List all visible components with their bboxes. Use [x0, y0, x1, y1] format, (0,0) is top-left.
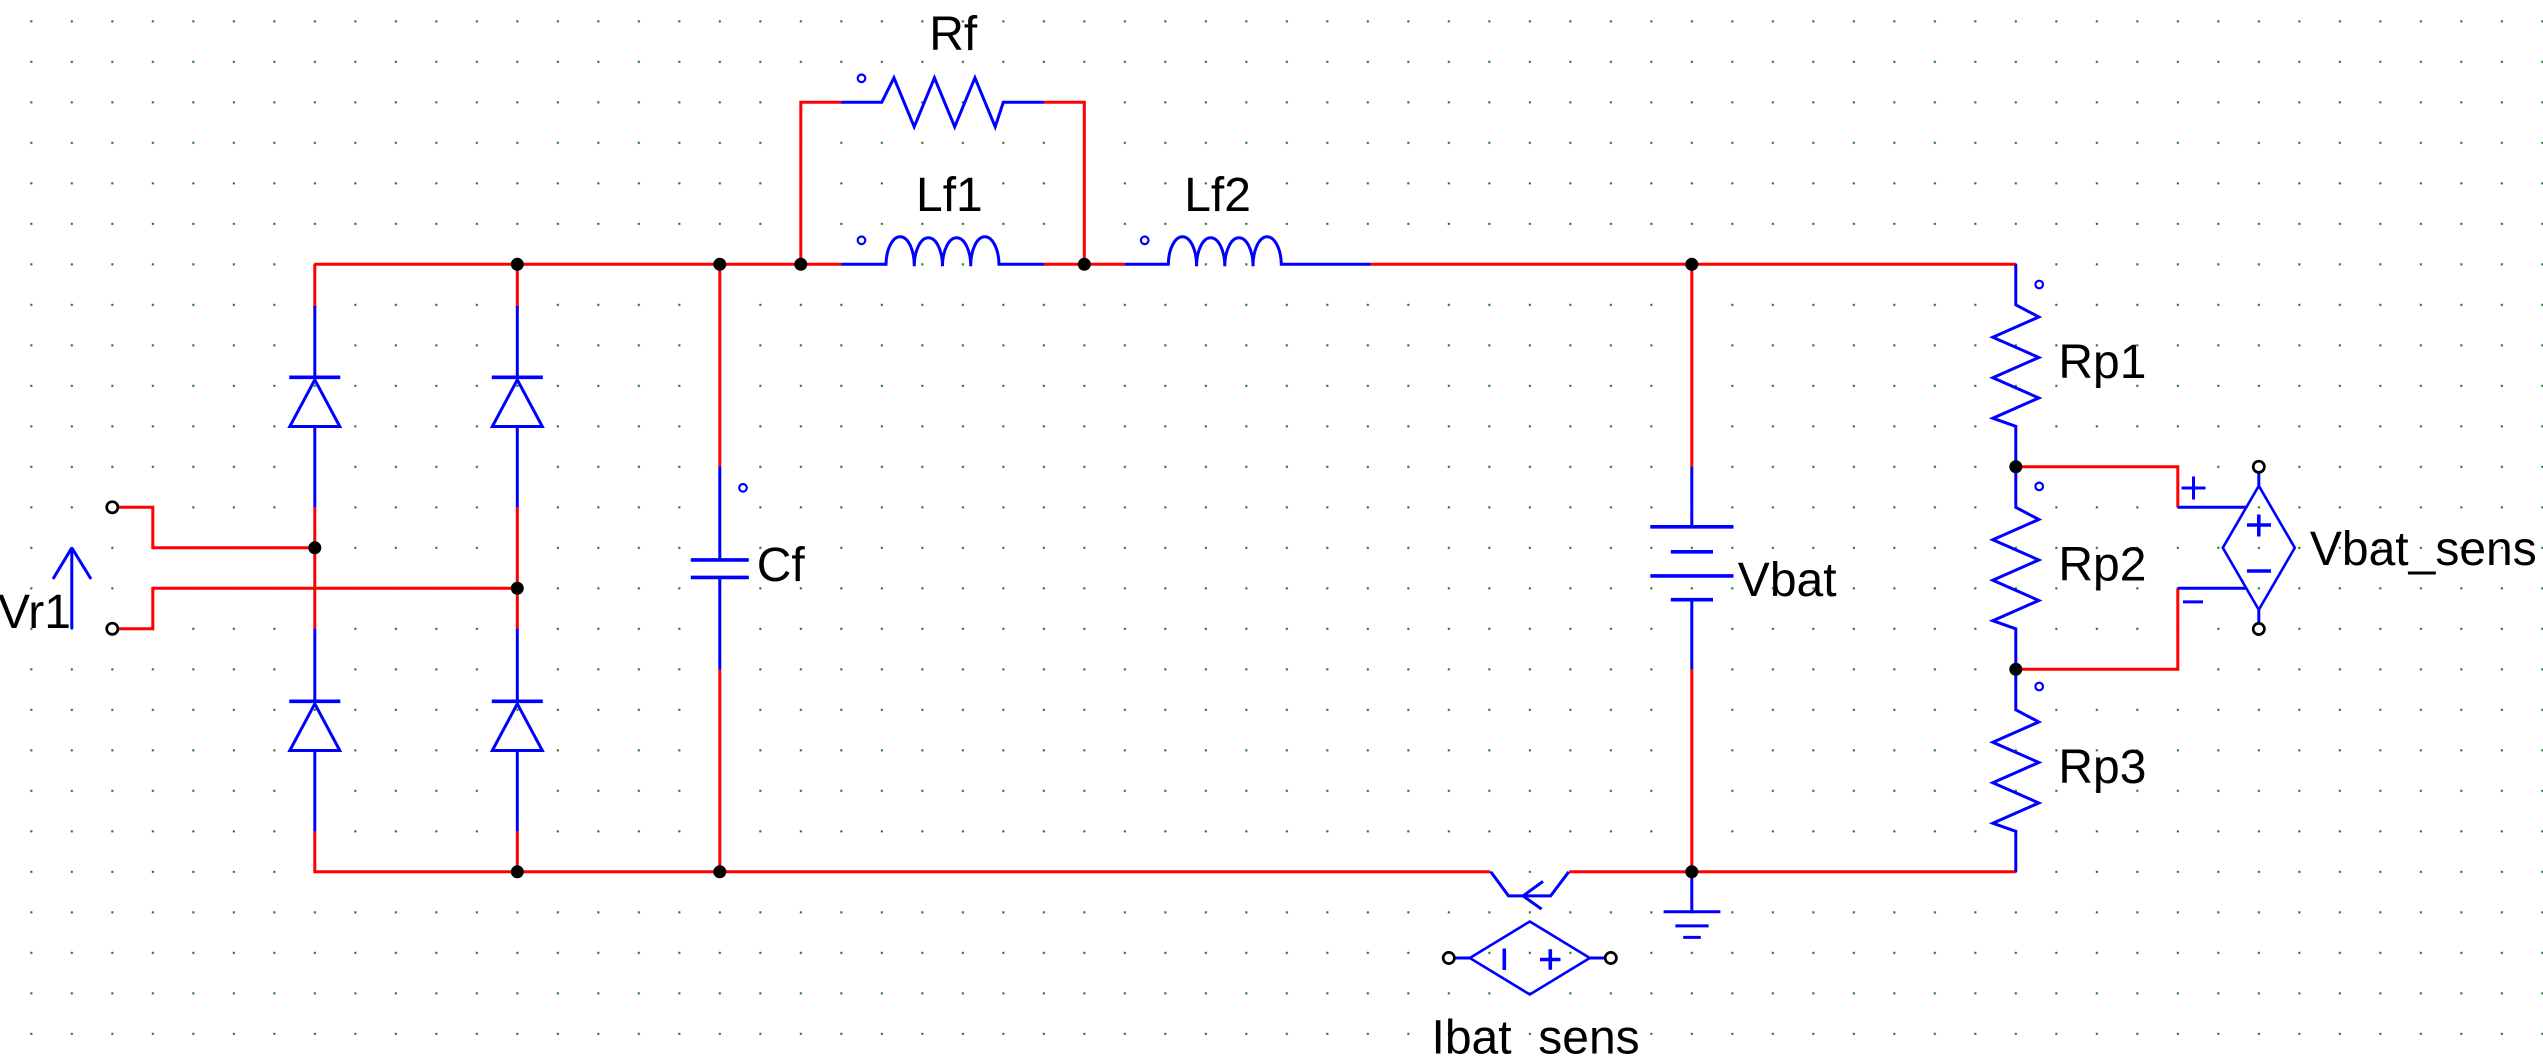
- wire Vr1 minus to bridge node B: [119, 588, 517, 629]
- svg-text:Lf2: Lf2: [1184, 169, 1251, 222]
- terminal Vr1 minus: [107, 623, 118, 634]
- junction top rail Vbat: [1685, 258, 1698, 271]
- terminal Ibat_sens right: [1605, 952, 1616, 963]
- junction node A (bridge left mid): [308, 541, 321, 554]
- Vbat_sens outer plus sign: [2182, 477, 2206, 500]
- junction top rail branch right: [1078, 258, 1091, 271]
- wire Vbat branch red: [1690, 264, 1693, 872]
- wire bottom rail: [315, 831, 2016, 872]
- diode D1 top-left: [289, 306, 340, 507]
- svg-text:Rp2: Rp2: [2058, 539, 2146, 592]
- svg-text:Rf: Rf: [929, 8, 978, 61]
- inductor Lf1: [841, 237, 1044, 267]
- svg-text:Rp1: Rp1: [2058, 336, 2146, 389]
- wire bridge right leg red segments: [516, 264, 519, 872]
- junction bottom rail right leg: [511, 865, 524, 878]
- junction bottom rail Vbat ground: [1685, 865, 1698, 878]
- dependent source Vbat_sens diamond: [2223, 473, 2295, 622]
- svg-text:Cf: Cf: [757, 539, 806, 592]
- ground: [1664, 872, 1721, 938]
- junction node B (bridge right mid): [511, 582, 524, 595]
- Vbat_sens inner plus sign: [2247, 515, 2271, 537]
- junction top rail right leg: [511, 258, 524, 271]
- junction top rail Cf: [713, 258, 726, 271]
- svg-text:Vbat_sens: Vbat_sens: [2310, 523, 2537, 576]
- Ibat_sens inner plus sign: [1540, 949, 1561, 970]
- wire top rail red segments: [315, 263, 2016, 266]
- wire Cf branch red: [718, 264, 721, 872]
- terminal Vbat_sens bottom: [2253, 623, 2264, 634]
- diode D3 top-right: [492, 306, 543, 507]
- wire Vr1 plus to bridge node A: [119, 507, 315, 548]
- junction top rail branch left: [794, 258, 807, 271]
- svg-text:Ibat_sens: Ibat_sens: [1432, 1012, 1640, 1059]
- terminal Vr1 plus: [107, 502, 118, 513]
- Ibat_sens inner I mark: [1503, 949, 1507, 971]
- svg-text:Rp3: Rp3: [2058, 741, 2146, 794]
- Vbat_sens inner minus sign: [2247, 569, 2271, 573]
- voltage source Vr1 arrow: [53, 548, 91, 629]
- dependent source Vbat_sens leads: [2178, 507, 2247, 588]
- wire bridge left leg red segments: [313, 264, 316, 629]
- dependent source Ibat_sens diamond: [1455, 922, 1605, 995]
- resistor Rf: [841, 75, 1044, 127]
- resistor Rp3: [1993, 669, 2043, 872]
- diode D2 bottom-left: [289, 629, 340, 832]
- capacitor Cf: [691, 467, 749, 670]
- wire sense tap lower (Rp2/Rp3 node to Vbat_sens -): [2016, 588, 2178, 669]
- svg-text:Vr1: Vr1: [0, 586, 71, 639]
- resistor Rp1: [1993, 264, 2043, 467]
- current sensor flag on rail for Ibat_sens: [1491, 872, 1569, 909]
- wire Rf parallel branch risers: [801, 102, 1085, 264]
- svg-text:Vbat: Vbat: [1738, 554, 1837, 607]
- diode D4 bottom-right: [492, 629, 543, 832]
- resistor Rp2: [1993, 467, 2043, 670]
- terminal Vbat_sens top: [2253, 461, 2264, 472]
- inductor Lf2: [1125, 237, 1371, 267]
- Vbat_sens outer minus sign: [2183, 600, 2203, 603]
- battery Vbat: [1650, 467, 1733, 670]
- svg-text:Lf1: Lf1: [916, 169, 983, 222]
- terminal Ibat_sens left: [1443, 952, 1454, 963]
- junction Rp2 Rp3 tap: [2009, 663, 2022, 676]
- junction Rp1 Rp2 tap: [2009, 460, 2022, 473]
- wire sense tap upper (Rp1/Rp2 node to Vbat_sens +): [2016, 467, 2178, 508]
- junction bottom rail Cf: [713, 865, 726, 878]
